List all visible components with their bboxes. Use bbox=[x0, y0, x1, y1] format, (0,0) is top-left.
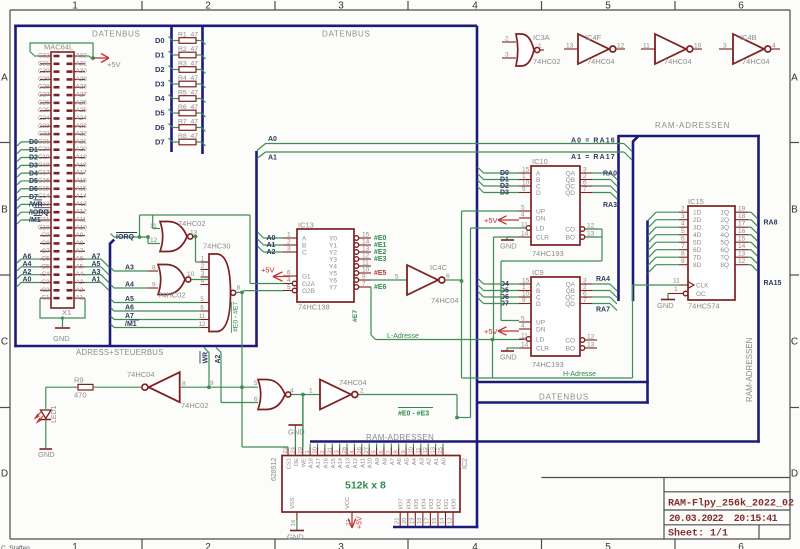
svg-text:D5: D5 bbox=[29, 178, 38, 185]
svg-text:14: 14 bbox=[362, 239, 370, 246]
svg-text:C22: C22 bbox=[38, 131, 50, 138]
svg-text:C9: C9 bbox=[41, 232, 50, 239]
svg-text:A3: A3 bbox=[76, 279, 84, 286]
svg-text:GND: GND bbox=[38, 450, 55, 459]
svg-text:GND: GND bbox=[53, 334, 70, 343]
svg-text:D: D bbox=[1, 469, 8, 480]
svg-text:D3: D3 bbox=[155, 80, 165, 89]
svg-text:WE: WE bbox=[301, 458, 307, 467]
svg-text:74HC04: 74HC04 bbox=[339, 378, 367, 387]
svg-text:MAC64L: MAC64L bbox=[44, 43, 73, 52]
svg-text:RA7: RA7 bbox=[596, 307, 610, 314]
svg-text:2: 2 bbox=[681, 206, 685, 213]
svg-text:A7: A7 bbox=[390, 458, 396, 465]
svg-text:IC13: IC13 bbox=[298, 221, 314, 230]
svg-text:C: C bbox=[1, 337, 8, 348]
svg-text:A26: A26 bbox=[76, 99, 88, 106]
svg-text:Y5: Y5 bbox=[329, 271, 337, 278]
svg-text:C32: C32 bbox=[38, 53, 50, 60]
svg-text:74HC04: 74HC04 bbox=[431, 296, 459, 305]
svg-text:17: 17 bbox=[738, 221, 746, 228]
svg-text:8: 8 bbox=[182, 381, 186, 388]
svg-text:IC4F: IC4F bbox=[585, 33, 602, 42]
svg-text:RAM-Flpy_256k_2022_02: RAM-Flpy_256k_2022_02 bbox=[668, 498, 794, 510]
svg-text:#E1: #E1 bbox=[374, 242, 387, 249]
svg-text:5: 5 bbox=[521, 316, 525, 323]
svg-text:A6: A6 bbox=[125, 305, 134, 312]
svg-text:5: 5 bbox=[372, 450, 378, 453]
svg-text:3: 3 bbox=[287, 246, 291, 253]
svg-text:D3: D3 bbox=[29, 163, 38, 170]
svg-text:13: 13 bbox=[431, 447, 437, 453]
svg-text:4: 4 bbox=[472, 1, 478, 12]
svg-text:D4: D4 bbox=[29, 170, 38, 177]
svg-text:6: 6 bbox=[446, 273, 450, 280]
svg-text:A32: A32 bbox=[76, 53, 88, 60]
svg-text:A13: A13 bbox=[76, 201, 88, 208]
svg-text:VCC: VCC bbox=[345, 497, 351, 509]
svg-text:A1: A1 bbox=[92, 277, 101, 284]
svg-text:10: 10 bbox=[408, 447, 414, 453]
svg-text:A: A bbox=[1, 73, 8, 84]
svg-text:4: 4 bbox=[472, 542, 478, 549]
svg-text:1: 1 bbox=[72, 542, 78, 549]
svg-text:9: 9 bbox=[362, 274, 366, 281]
svg-text:11: 11 bbox=[362, 260, 369, 267]
svg-text:74HC04: 74HC04 bbox=[742, 57, 770, 66]
svg-text:A14: A14 bbox=[338, 457, 344, 468]
svg-text:20: 20 bbox=[402, 518, 408, 524]
svg-text:A6: A6 bbox=[397, 458, 403, 465]
svg-text:7: 7 bbox=[362, 281, 366, 288]
svg-text:A5: A5 bbox=[405, 458, 411, 465]
svg-text:11: 11 bbox=[643, 43, 650, 50]
svg-text:A4: A4 bbox=[76, 271, 84, 278]
svg-text:A29: A29 bbox=[76, 76, 88, 83]
svg-text:Y6: Y6 bbox=[329, 278, 337, 285]
svg-text:9: 9 bbox=[210, 380, 214, 387]
svg-text:Sheet: 1/1: Sheet: 1/1 bbox=[668, 528, 728, 540]
svg-text:5: 5 bbox=[395, 274, 399, 281]
svg-text:4: 4 bbox=[772, 43, 776, 50]
svg-text:RA0: RA0 bbox=[603, 171, 617, 178]
svg-text:2Q: 2Q bbox=[720, 217, 729, 224]
svg-text:R6 47: R6 47 bbox=[178, 104, 198, 111]
svg-text:20.03.2022 20:15:41: 20.03.2022 20:15:41 bbox=[669, 514, 778, 525]
svg-text:19: 19 bbox=[738, 206, 746, 213]
svg-text:6: 6 bbox=[254, 396, 258, 403]
svg-text:I/O2: I/O2 bbox=[436, 499, 442, 510]
svg-text:5: 5 bbox=[521, 205, 525, 212]
svg-text:9: 9 bbox=[152, 282, 156, 289]
svg-text:7Q: 7Q bbox=[720, 255, 729, 262]
svg-text:74HC574: 74HC574 bbox=[688, 302, 720, 311]
svg-text:13: 13 bbox=[738, 251, 746, 258]
svg-text:I/O7: I/O7 bbox=[399, 499, 405, 510]
svg-text:74HC138: 74HC138 bbox=[298, 303, 330, 312]
svg-text:18: 18 bbox=[738, 213, 746, 220]
svg-text:A4: A4 bbox=[125, 282, 134, 289]
svg-text:74HC02: 74HC02 bbox=[158, 291, 186, 300]
svg-text:B: B bbox=[791, 205, 798, 216]
svg-text:A5: A5 bbox=[125, 296, 134, 303]
svg-text:D3: D3 bbox=[500, 190, 509, 197]
svg-text:A6: A6 bbox=[23, 253, 32, 260]
svg-text:C8: C8 bbox=[41, 240, 50, 247]
svg-text:13: 13 bbox=[587, 342, 595, 349]
svg-text:8: 8 bbox=[237, 285, 241, 292]
svg-text:RAM-ADRESSEN: RAM-ADRESSEN bbox=[366, 433, 434, 442]
svg-text:A6: A6 bbox=[76, 256, 84, 263]
svg-text:C31: C31 bbox=[38, 60, 50, 67]
svg-text:A12: A12 bbox=[76, 209, 88, 216]
svg-text:D: D bbox=[536, 190, 541, 197]
svg-text:A14: A14 bbox=[76, 193, 88, 200]
svg-text:RAM-ADRESSEN: RAM-ADRESSEN bbox=[655, 121, 730, 130]
svg-text:4: 4 bbox=[681, 221, 685, 228]
svg-text:1: 1 bbox=[674, 286, 678, 293]
svg-text:C6: C6 bbox=[41, 256, 50, 263]
svg-text:21: 21 bbox=[394, 518, 400, 524]
svg-text:G2B: G2B bbox=[302, 288, 315, 295]
svg-text:14: 14 bbox=[521, 231, 529, 238]
svg-text:9: 9 bbox=[522, 186, 526, 193]
svg-text:1: 1 bbox=[287, 232, 291, 239]
svg-text:IC4C: IC4C bbox=[430, 263, 448, 272]
svg-text:G2A: G2A bbox=[302, 281, 316, 288]
svg-text:D6: D6 bbox=[155, 123, 165, 132]
svg-text:A25: A25 bbox=[76, 107, 88, 114]
svg-text:Y3: Y3 bbox=[329, 257, 337, 264]
svg-text:8: 8 bbox=[681, 251, 685, 258]
svg-text:B: B bbox=[1, 205, 8, 216]
svg-text:#E5: #E5 bbox=[374, 270, 387, 277]
svg-text:A15: A15 bbox=[76, 185, 88, 192]
svg-text:BO: BO bbox=[566, 346, 575, 353]
svg-text:14: 14 bbox=[440, 517, 446, 524]
svg-text:31: 31 bbox=[327, 447, 333, 453]
svg-text:74HC04: 74HC04 bbox=[127, 370, 155, 379]
svg-text:IC9: IC9 bbox=[532, 268, 544, 277]
svg-text:IC10: IC10 bbox=[532, 157, 548, 166]
svg-text:2: 2 bbox=[287, 239, 291, 246]
svg-text:1: 1 bbox=[305, 450, 311, 453]
svg-text:D1: D1 bbox=[155, 51, 165, 60]
svg-text:A0: A0 bbox=[267, 235, 276, 242]
svg-text:9: 9 bbox=[522, 297, 526, 304]
svg-text:A2: A2 bbox=[427, 458, 433, 465]
svg-text:4: 4 bbox=[287, 277, 291, 284]
svg-text:5Q: 5Q bbox=[720, 240, 729, 247]
svg-text:A10: A10 bbox=[368, 458, 374, 468]
svg-text:#E2: #E2 bbox=[374, 249, 387, 256]
svg-text:3: 3 bbox=[681, 213, 685, 220]
svg-text:#E0 - #E3: #E0 - #E3 bbox=[398, 411, 429, 418]
svg-text:R5 47: R5 47 bbox=[178, 89, 198, 96]
svg-text:R9: R9 bbox=[74, 376, 84, 385]
svg-text:C28: C28 bbox=[38, 84, 50, 91]
svg-text:3: 3 bbox=[338, 1, 344, 12]
svg-text:25: 25 bbox=[438, 447, 444, 453]
svg-text:I/O4: I/O4 bbox=[421, 498, 427, 510]
svg-text:LED1: LED1 bbox=[51, 405, 58, 423]
svg-text:74HC04: 74HC04 bbox=[664, 57, 692, 66]
svg-text:C26: C26 bbox=[38, 99, 50, 106]
svg-text:D: D bbox=[536, 301, 541, 308]
svg-text:74HC02: 74HC02 bbox=[178, 219, 206, 228]
svg-text:Y0: Y0 bbox=[329, 236, 337, 243]
svg-text:A2: A2 bbox=[23, 269, 32, 276]
svg-text:A4: A4 bbox=[412, 457, 418, 465]
svg-text:+5V: +5V bbox=[357, 516, 364, 529]
svg-text:13: 13 bbox=[362, 246, 370, 253]
svg-text:A23: A23 bbox=[76, 123, 88, 130]
svg-text:A27: A27 bbox=[76, 92, 88, 99]
svg-text:C2: C2 bbox=[41, 287, 50, 294]
svg-text:2: 2 bbox=[505, 36, 509, 43]
svg-text:16: 16 bbox=[291, 520, 297, 526]
svg-text:74HC193: 74HC193 bbox=[532, 249, 564, 258]
svg-text:BO: BO bbox=[566, 235, 575, 242]
svg-text:C24: C24 bbox=[38, 115, 50, 122]
svg-text:5: 5 bbox=[681, 228, 685, 235]
svg-text:+5V: +5V bbox=[261, 266, 275, 275]
svg-text:A1: A1 bbox=[267, 242, 276, 249]
svg-text:4D: 4D bbox=[693, 232, 702, 239]
svg-text:H-Adresse: H-Adresse bbox=[563, 371, 596, 378]
svg-text:14: 14 bbox=[521, 342, 529, 349]
svg-text:1Q: 1Q bbox=[720, 210, 729, 217]
svg-text:C5: C5 bbox=[41, 263, 50, 270]
svg-text:OE: OE bbox=[294, 458, 300, 467]
svg-text:R7 47: R7 47 bbox=[178, 118, 198, 125]
svg-text:DATENBUS: DATENBUS bbox=[92, 30, 141, 39]
svg-text:GND: GND bbox=[500, 353, 517, 362]
svg-text:C30: C30 bbox=[38, 68, 50, 75]
svg-text:8Q: 8Q bbox=[720, 262, 729, 269]
svg-text:10: 10 bbox=[187, 271, 195, 278]
svg-text:5: 5 bbox=[605, 542, 611, 549]
svg-text:IC2: IC2 bbox=[462, 458, 469, 469]
svg-text:D1: D1 bbox=[29, 147, 38, 154]
svg-text:A1: A1 bbox=[268, 155, 277, 162]
svg-text:6: 6 bbox=[287, 270, 291, 277]
svg-text:#E3: #E3 bbox=[374, 256, 387, 263]
svg-text:DATENBUS: DATENBUS bbox=[539, 393, 589, 402]
svg-text:A24: A24 bbox=[76, 115, 88, 122]
svg-text:6Q: 6Q bbox=[720, 247, 729, 254]
svg-text:C. Staffen: C. Staffen bbox=[1, 545, 30, 549]
svg-text:74HC30: 74HC30 bbox=[203, 242, 231, 251]
svg-text:A: A bbox=[302, 236, 307, 243]
svg-text:18: 18 bbox=[417, 518, 423, 524]
svg-text:RA15: RA15 bbox=[764, 280, 782, 287]
svg-text:12: 12 bbox=[587, 334, 595, 341]
svg-text:A5: A5 bbox=[76, 263, 84, 270]
svg-text:#E0 - #E7: #E0 - #E7 bbox=[233, 302, 240, 332]
svg-text:#E7: #E7 bbox=[352, 310, 359, 322]
svg-text:D7: D7 bbox=[155, 138, 165, 147]
svg-text:C10: C10 bbox=[38, 224, 50, 231]
svg-text:3D: 3D bbox=[693, 225, 702, 232]
svg-text:19: 19 bbox=[410, 518, 416, 524]
svg-text:C4: C4 bbox=[41, 271, 50, 278]
svg-text:22: 22 bbox=[283, 447, 289, 453]
svg-text:3: 3 bbox=[335, 450, 341, 453]
svg-text:OC: OC bbox=[696, 291, 706, 298]
svg-text:15: 15 bbox=[362, 232, 370, 239]
svg-text:RA3: RA3 bbox=[603, 202, 617, 209]
svg-text:A7: A7 bbox=[125, 313, 134, 320]
svg-text:+5V: +5V bbox=[484, 327, 498, 336]
svg-text:512k x 8: 512k x 8 bbox=[345, 480, 386, 492]
svg-text:7: 7 bbox=[583, 186, 587, 193]
svg-text:4: 4 bbox=[521, 323, 525, 330]
svg-text:A17: A17 bbox=[76, 170, 88, 177]
svg-text:4Q: 4Q bbox=[720, 232, 729, 239]
svg-text:A8: A8 bbox=[382, 458, 388, 465]
svg-text:A3: A3 bbox=[125, 265, 134, 272]
svg-text:15: 15 bbox=[738, 236, 746, 243]
svg-text:#E6: #E6 bbox=[374, 284, 387, 291]
svg-text:10: 10 bbox=[362, 267, 370, 274]
svg-text:74HC04: 74HC04 bbox=[587, 57, 615, 66]
svg-text:1: 1 bbox=[309, 388, 313, 395]
svg-text:D4: D4 bbox=[155, 94, 165, 103]
svg-text:C7: C7 bbox=[41, 248, 50, 255]
svg-text:5: 5 bbox=[254, 380, 258, 387]
svg-text:CLR: CLR bbox=[536, 346, 549, 353]
svg-text:13: 13 bbox=[447, 518, 453, 524]
svg-text:6: 6 bbox=[738, 1, 744, 12]
svg-text:DATENBUS: DATENBUS bbox=[322, 30, 371, 39]
svg-text:RA4: RA4 bbox=[596, 276, 610, 283]
svg-text:I/O6: I/O6 bbox=[406, 499, 412, 510]
svg-text:A2: A2 bbox=[267, 249, 276, 256]
svg-text:628512: 628512 bbox=[271, 458, 278, 481]
svg-text:29: 29 bbox=[298, 447, 304, 453]
svg-text:6: 6 bbox=[681, 236, 685, 243]
svg-text:2: 2 bbox=[205, 542, 211, 549]
svg-text:IC3A: IC3A bbox=[533, 33, 550, 42]
svg-text:Y4: Y4 bbox=[329, 264, 337, 271]
svg-text:D6: D6 bbox=[29, 186, 38, 193]
svg-text:CLK: CLK bbox=[696, 283, 709, 290]
svg-text:#E0: #E0 bbox=[374, 235, 387, 242]
svg-text:9: 9 bbox=[401, 450, 407, 453]
svg-text:8: 8 bbox=[394, 450, 400, 453]
svg-text:A1: A1 bbox=[76, 295, 84, 302]
svg-text:A11: A11 bbox=[76, 217, 87, 224]
svg-text:A18: A18 bbox=[309, 458, 315, 468]
svg-text:26: 26 bbox=[357, 447, 363, 453]
svg-text:D5: D5 bbox=[155, 109, 165, 118]
svg-text:Y1: Y1 bbox=[329, 243, 337, 250]
svg-text:I/O0: I/O0 bbox=[452, 499, 458, 510]
svg-text:7D: 7D bbox=[693, 255, 702, 262]
svg-text:12: 12 bbox=[617, 43, 625, 50]
svg-text:GND: GND bbox=[657, 301, 674, 310]
svg-text:4: 4 bbox=[290, 388, 294, 395]
svg-text:A1: A1 bbox=[434, 458, 440, 465]
svg-text:R3 47: R3 47 bbox=[178, 60, 198, 67]
svg-text:IC4B: IC4B bbox=[740, 33, 757, 42]
svg-text:A0 = RA16: A0 = RA16 bbox=[571, 138, 616, 145]
svg-text:QD: QD bbox=[565, 190, 575, 197]
svg-text:I/O3: I/O3 bbox=[429, 499, 435, 510]
svg-text:470: 470 bbox=[74, 391, 87, 400]
svg-text:74HC02: 74HC02 bbox=[533, 57, 561, 66]
svg-text:3: 3 bbox=[723, 43, 727, 50]
svg-text:CO: CO bbox=[565, 338, 575, 345]
svg-text:LD: LD bbox=[536, 337, 545, 344]
svg-text:C: C bbox=[791, 337, 798, 348]
svg-text:/M1: /M1 bbox=[29, 217, 41, 224]
svg-text:+5V: +5V bbox=[107, 60, 121, 69]
svg-text:VSS: VSS bbox=[290, 497, 296, 509]
svg-text:A: A bbox=[791, 73, 798, 84]
svg-text:7: 7 bbox=[681, 243, 685, 250]
svg-text:IC15: IC15 bbox=[688, 197, 704, 206]
svg-text:QD: QD bbox=[565, 301, 575, 308]
svg-text:CS1: CS1 bbox=[287, 458, 293, 469]
svg-text:3: 3 bbox=[338, 542, 344, 549]
svg-text:2: 2 bbox=[205, 1, 211, 12]
svg-text:A0: A0 bbox=[23, 277, 32, 284]
svg-text:Y7: Y7 bbox=[329, 285, 337, 292]
svg-text:5D: 5D bbox=[693, 240, 702, 247]
svg-text:R8 47: R8 47 bbox=[178, 133, 198, 140]
svg-text:74HC02: 74HC02 bbox=[181, 401, 209, 410]
svg-text:1: 1 bbox=[72, 1, 78, 12]
svg-text:6: 6 bbox=[738, 542, 744, 549]
svg-text:A12: A12 bbox=[353, 458, 359, 468]
svg-text:IORQ: IORQ bbox=[116, 234, 134, 241]
svg-text:A1 = RA17: A1 = RA17 bbox=[571, 154, 616, 161]
svg-text:2: 2 bbox=[320, 450, 326, 453]
svg-text:D2: D2 bbox=[155, 65, 165, 74]
svg-text:I/O1: I/O1 bbox=[444, 499, 450, 510]
svg-text:A11: A11 bbox=[360, 458, 366, 468]
svg-text:D2: D2 bbox=[29, 155, 38, 162]
svg-text:C25: C25 bbox=[38, 107, 50, 114]
svg-text:12: 12 bbox=[362, 253, 370, 260]
svg-text:CLR: CLR bbox=[536, 235, 549, 242]
svg-text:8: 8 bbox=[152, 265, 156, 272]
svg-text:D0: D0 bbox=[29, 139, 38, 146]
svg-text:1D: 1D bbox=[693, 210, 702, 217]
svg-text:GND: GND bbox=[287, 533, 304, 542]
svg-text:A4: A4 bbox=[23, 261, 32, 268]
svg-text:2D: 2D bbox=[693, 217, 702, 224]
svg-text:2: 2 bbox=[360, 388, 364, 395]
svg-text:A20: A20 bbox=[76, 146, 88, 153]
svg-text:R4 47: R4 47 bbox=[178, 75, 198, 82]
svg-text:A22: A22 bbox=[76, 131, 88, 138]
svg-text:C23: C23 bbox=[38, 123, 50, 130]
svg-text:A28: A28 bbox=[76, 84, 88, 91]
svg-text:7: 7 bbox=[386, 450, 392, 453]
svg-text:D: D bbox=[791, 469, 798, 480]
svg-text:1: 1 bbox=[538, 43, 542, 50]
svg-text:C29: C29 bbox=[38, 76, 50, 83]
svg-text:15: 15 bbox=[432, 518, 438, 524]
svg-text:A9: A9 bbox=[375, 458, 381, 465]
svg-text:A21: A21 bbox=[76, 138, 88, 145]
svg-text:13: 13 bbox=[566, 43, 574, 50]
svg-text:10: 10 bbox=[694, 43, 702, 50]
svg-text:6: 6 bbox=[379, 450, 385, 453]
